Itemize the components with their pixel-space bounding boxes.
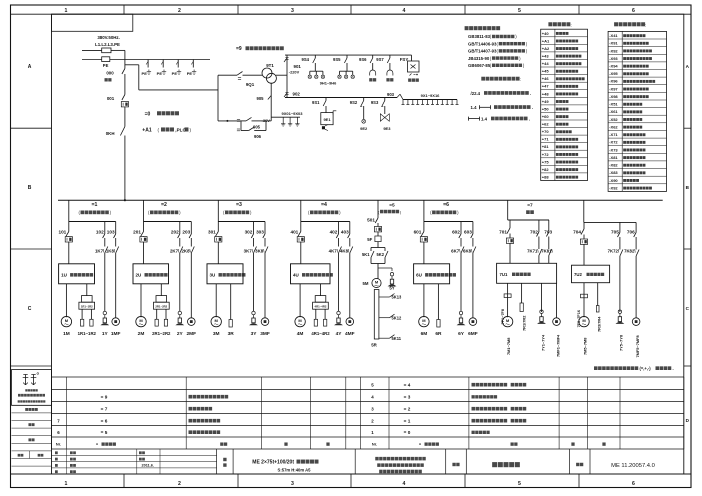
svg-text:+70: +70 <box>542 129 550 134</box>
drive unit 2U <box>133 264 169 284</box>
PE ground drops <box>142 60 152 76</box>
svg-text:6K8\: 6K8\ <box>463 249 473 254</box>
svg-text:A: A <box>28 64 32 70</box>
motor 4M <box>295 284 305 337</box>
svg-text:1.4: 1.4 <box>471 105 478 110</box>
svg-text:2MF: 2MF <box>186 331 196 337</box>
svg-text:3R: 3R <box>228 331 235 337</box>
svg-text:6Y: 6Y <box>458 331 465 337</box>
fuses 7F1-7F8 <box>501 283 511 324</box>
contactor contacts 1K7 1K8 <box>95 247 119 318</box>
svg-text:9E1: 9E1 <box>323 117 331 122</box>
svg-text:Nr.: Nr. <box>372 442 377 447</box>
svg-text:-X73: -X73 <box>609 147 618 152</box>
branch =1 header <box>79 202 112 215</box>
incoming terminal block PE <box>102 57 110 68</box>
svg-text:.: . <box>529 116 530 121</box>
wire 901 from transformer <box>276 55 287 97</box>
drive unit 1U <box>59 264 95 284</box>
branch =6 header <box>430 202 459 215</box>
svg-text:201: 201 <box>133 230 141 235</box>
braking resistors 4R1 4R2 <box>311 284 330 336</box>
svg-text:203: 203 <box>182 230 190 235</box>
schedule table grid <box>52 377 684 449</box>
svg-text:+75: +75 <box>542 159 550 164</box>
svg-text:5: 5 <box>518 481 521 487</box>
svg-text:0KH: 0KH <box>106 131 115 136</box>
wire 101 breaker 1Q1 <box>58 222 72 264</box>
brakes 7Y5-7Y8 <box>616 310 625 351</box>
svg-text:705: 705 <box>611 230 619 235</box>
svg-text:.: . <box>673 366 674 371</box>
svg-text::: : <box>645 22 646 27</box>
svg-text:902: 902 <box>293 91 301 96</box>
svg-text:501: 501 <box>367 218 375 223</box>
svg-text::: : <box>520 77 521 82</box>
svg-text:3U: 3U <box>210 273 216 278</box>
svg-text:603: 603 <box>464 230 472 235</box>
motor 1M <box>61 284 71 337</box>
breaker 9Q6 branch 906 <box>237 121 266 139</box>
brake motor 5M <box>363 278 382 287</box>
svg-text:5M: 5M <box>363 281 369 286</box>
switch 9S2 lamp 9E2 <box>350 98 368 132</box>
svg-text:702: 702 <box>530 230 538 235</box>
svg-text:4MF: 4MF <box>345 331 355 337</box>
svg-text:GB3811-83: GB3811-83 <box>468 34 491 39</box>
svg-text:6MF: 6MF <box>468 331 478 337</box>
svg-text:=1: =1 <box>92 202 98 208</box>
svg-text:+48: +48 <box>542 91 550 96</box>
svg-text:601: 601 <box>414 230 422 235</box>
node =0 label <box>145 111 179 117</box>
svg-text:= 6: = 6 <box>101 418 108 423</box>
svg-text:=7: =7 <box>527 202 533 208</box>
svg-text:1K7\: 1K7\ <box>95 249 105 254</box>
contactor contacts 6K7 6K8 <box>451 247 476 318</box>
bottom column band <box>11 474 692 488</box>
contacts 7K72 7K82 <box>608 249 639 318</box>
incoming terminal block X0 phase <box>102 48 111 53</box>
svg-text:401: 401 <box>290 230 298 235</box>
brake 3Y <box>249 311 258 337</box>
svg-text:GB/T14406-93: GB/T14406-93 <box>468 41 497 46</box>
switch 9S1 bell <box>312 98 336 131</box>
encoders 7MF5-7MF8 <box>632 318 640 358</box>
svg-text:=2: =2 <box>161 202 167 208</box>
wire 903 to terminal strip <box>387 92 403 100</box>
drive unit 4U <box>291 264 333 284</box>
svg-text:+72: +72 <box>542 152 550 157</box>
svg-text:6: 6 <box>632 8 635 14</box>
switch 9S5 lamp group 2 <box>333 55 354 78</box>
svg-text:905: 905 <box>257 96 265 101</box>
svg-text:-X94: -X94 <box>609 64 618 69</box>
svg-text:1R1~1R2: 1R1~1R2 <box>78 331 97 336</box>
svg-text:000: 000 <box>106 71 114 76</box>
svg-text:2: 2 <box>178 8 181 14</box>
main contactor 0KH <box>106 127 125 201</box>
svg-text:5K2: 5K2 <box>376 252 384 257</box>
transformer 9T1 <box>262 63 276 84</box>
svg-text:-X61: -X61 <box>609 109 618 114</box>
svg-text:1K8\: 1K8\ <box>106 249 116 254</box>
svg-text:3MF: 3MF <box>260 331 270 337</box>
svg-text:FSY: FSY <box>400 57 409 62</box>
svg-text:4U: 4U <box>293 273 299 278</box>
svg-text:906: 906 <box>254 134 262 139</box>
svg-text:1Y: 1Y <box>102 331 109 337</box>
svg-text:JB4315-90: JB4315-90 <box>468 56 490 61</box>
svg-text:= 1: = 1 <box>404 418 411 423</box>
svg-text:9S5: 9S5 <box>333 57 341 62</box>
svg-text::: : <box>571 22 572 27</box>
encoder 2MF <box>186 318 196 337</box>
revision box top left <box>52 14 133 31</box>
wires 302 303 <box>245 222 265 247</box>
svg-text:-X92: -X92 <box>609 185 618 190</box>
motor 6M <box>419 284 429 337</box>
svg-text:3M: 3M <box>213 331 220 337</box>
aux feeder junction bar <box>217 75 219 121</box>
wires 705 706 <box>611 222 636 249</box>
svg-text:4K7\: 4K7\ <box>329 249 339 254</box>
svg-text:2R1~2R2: 2R1~2R2 <box>152 331 171 336</box>
svg-text:=0: =0 <box>145 111 151 117</box>
contacts 7K71 7K81 <box>527 249 553 264</box>
svg-text:-X95: -X95 <box>609 71 618 76</box>
svg-text:7MF5~7MF8: 7MF5~7MF8 <box>635 335 640 358</box>
svg-text:-X90: -X90 <box>609 178 618 183</box>
svg-text:7R3/7R4: 7R3/7R4 <box>597 316 602 332</box>
signature rows <box>12 405 52 466</box>
svg-text:4: 4 <box>403 481 406 487</box>
logo box <box>12 370 52 406</box>
header =9 aux supply <box>236 46 284 52</box>
svg-text:2K7\: 2K7\ <box>170 249 180 254</box>
sub-bus 7 feed 2 <box>584 200 636 222</box>
svg-text:303: 303 <box>256 230 264 235</box>
motor 3M <box>211 284 221 337</box>
svg-text:=5: =5 <box>389 202 395 208</box>
svg-text:1MF: 1MF <box>111 331 121 337</box>
contactor contacts 2K7 2K8 <box>170 247 194 318</box>
resistors 7R3 7R4 <box>596 283 601 332</box>
svg-text:-X52: -X52 <box>609 117 618 122</box>
svg-text:4R1~4R2: 4R1~4R2 <box>311 331 330 336</box>
svg-text:-X83: -X83 <box>609 170 618 175</box>
terminal strip 9X01-9X03 with grounds <box>271 111 303 126</box>
svg-text:-X81: -X81 <box>609 155 618 160</box>
svg-text:-X82: -X82 <box>609 163 618 168</box>
svg-text:= 3: = 3 <box>404 394 411 399</box>
motors 7M1-7M4 <box>502 316 512 355</box>
svg-text:103: 103 <box>107 230 115 235</box>
svg-text:4M: 4M <box>297 331 304 337</box>
svg-text:602: 602 <box>452 230 460 235</box>
drawing number label <box>576 463 583 466</box>
svg-text:6K7\: 6K7\ <box>451 249 461 254</box>
title row grid <box>217 449 590 474</box>
svg-text:7R1/7R2: 7R1/7R2 <box>521 315 526 331</box>
encoder 4MF <box>345 318 355 337</box>
branch =3 header <box>223 202 252 215</box>
svg-text:PE: PE <box>103 63 109 68</box>
branch =2 header <box>148 202 181 215</box>
svg-text:+44: +44 <box>542 61 550 66</box>
svg-text:2R1~2R2: 2R1~2R2 <box>155 305 167 309</box>
svg-text:5Y: 5Y <box>389 286 394 291</box>
svg-text:7K72\: 7K72\ <box>608 249 620 254</box>
breaker 0Q1 <box>107 95 129 127</box>
wire 701 breaker 7Q1 <box>499 220 513 263</box>
disconnect switch 0Q0 <box>105 69 125 95</box>
svg-text:4R1~4R2: 4R1~4R2 <box>315 305 327 309</box>
svg-text:7U2: 7U2 <box>574 272 582 277</box>
svg-text:C: C <box>28 306 32 312</box>
svg-text:905: 905 <box>253 124 261 129</box>
svg-text:2K8\: 2K8\ <box>181 249 191 254</box>
brake 2Y <box>175 311 184 337</box>
wire 501 breaker 5Q1 <box>367 200 381 236</box>
svg-text:+A2: +A2 <box>542 46 550 51</box>
schedule header row <box>56 442 606 447</box>
svg-text:-X91: -X91 <box>609 41 618 46</box>
svg-text:= 9: = 9 <box>101 394 108 399</box>
svg-text:5K12: 5K12 <box>392 315 403 320</box>
svg-text:9S4: 9S4 <box>302 57 310 62</box>
svg-text:6U: 6U <box>416 273 422 278</box>
svg-text:380V.50Hz.: 380V.50Hz. <box>97 35 120 40</box>
svg-text:=6: =6 <box>443 202 449 208</box>
lamps label 9H1-9H6 <box>320 81 337 86</box>
svg-text:2Y: 2Y <box>177 331 184 337</box>
location code table <box>541 22 588 180</box>
cable marking legend <box>469 77 534 122</box>
svg-text:+43: +43 <box>542 54 550 59</box>
wires 602 603 <box>452 222 473 247</box>
svg-text:2U: 2U <box>136 273 142 278</box>
svg-text:9T1: 9T1 <box>266 63 274 68</box>
svg-text:+82: +82 <box>542 167 550 172</box>
switch 9S7 socket <box>376 55 393 81</box>
svg-text:5F: 5F <box>367 237 372 242</box>
switch 9S6 socket <box>359 55 376 81</box>
svg-text:6R: 6R <box>435 331 442 337</box>
wire to aux circuit <box>125 65 218 90</box>
svg-text:9S7: 9S7 <box>376 57 384 62</box>
svg-text:7M5~7M8: 7M5~7M8 <box>582 337 587 355</box>
brake 4Y <box>334 311 343 337</box>
braking resistors 1R1 1R2 <box>78 284 97 336</box>
svg-text:GB/T14407-93: GB/T14407-93 <box>468 49 497 54</box>
fuse marks near 902 <box>284 91 300 97</box>
brake 6Y <box>457 311 466 337</box>
svg-text:2011.6.: 2011.6. <box>142 464 154 468</box>
svg-text:+40: +40 <box>542 31 550 36</box>
left row band letters <box>11 64 52 366</box>
wire 201 breaker 2Q1 <box>133 222 147 264</box>
drawing number <box>611 463 655 469</box>
svg-text:-X96: -X96 <box>609 79 618 84</box>
company names <box>375 457 425 473</box>
drive unit 7U1 <box>497 263 557 283</box>
svg-text:7MF1~7MF4: 7MF1~7MF4 <box>555 334 560 357</box>
svg-text:302: 302 <box>245 230 253 235</box>
svg-text:+81: +81 <box>542 144 550 149</box>
svg-text:9S3: 9S3 <box>371 100 379 105</box>
svg-text:5K13: 5K13 <box>392 295 403 300</box>
branch =4 feeder and sub-bus <box>301 200 350 221</box>
encoder 1MF <box>111 318 121 337</box>
svg-text:.: . <box>532 105 533 110</box>
svg-text:4Y: 4Y <box>336 331 343 337</box>
svg-text:PE: PE <box>157 71 163 76</box>
wires 402 403 <box>330 222 350 247</box>
svg-text:1: 1 <box>65 8 68 14</box>
braking resistors 2R1 2R2 <box>152 284 171 336</box>
svg-text:6: 6 <box>632 481 635 487</box>
encoder 6MF <box>468 318 478 337</box>
svg-text:301: 301 <box>208 230 216 235</box>
resistors 7R1 7R2 <box>520 283 526 331</box>
svg-text:=9: =9 <box>236 46 242 52</box>
svg-text:L1.L2.L3.PE: L1.L2.L3.PE <box>95 42 120 47</box>
svg-text:-X98: -X98 <box>609 94 618 99</box>
svg-text:+88: +88 <box>542 175 550 180</box>
drawing title <box>492 462 520 467</box>
svg-text:+A1: +A1 <box>542 38 550 43</box>
svg-text:9S2: 9S2 <box>350 100 358 105</box>
svg-text:1: 1 <box>65 481 68 487</box>
wire 905 transformer secondary <box>257 83 272 123</box>
svg-text:9S6: 9S6 <box>359 57 367 62</box>
svg-text:1.4: 1.4 <box>481 116 488 121</box>
wire 601 breaker 6Q1 <box>414 222 428 264</box>
svg-text:PE: PE <box>142 71 148 76</box>
switch 9S3 horn 9E3 <box>371 98 391 132</box>
svg-text:903: 903 <box>387 92 395 97</box>
svg-text:Nr.: Nr. <box>56 442 61 447</box>
wires 202 203 <box>171 222 191 247</box>
svg-text:9X01~9X03: 9X01~9X03 <box>281 111 303 116</box>
svg-text:= 5: = 5 <box>101 430 108 435</box>
svg-text:102: 102 <box>96 230 104 235</box>
svg-text:=4: =4 <box>321 202 327 208</box>
svg-text:403: 403 <box>341 230 349 235</box>
svg-text:-220V: -220V <box>289 69 300 74</box>
incoming supply label 380V 50Hz <box>95 35 120 47</box>
svg-text:402: 402 <box>330 230 338 235</box>
svg-text:001: 001 <box>107 96 115 101</box>
svg-text:9E3: 9E3 <box>383 126 391 131</box>
top column band <box>11 5 692 14</box>
breaker 9Q1 <box>218 72 262 87</box>
drive unit 7U2 <box>572 265 610 283</box>
svg-text:-X51: -X51 <box>609 102 618 107</box>
svg-text:7K82\: 7K82\ <box>624 249 636 254</box>
contactor contacts 4K7 4K8 <box>329 247 353 318</box>
svg-text:+45: +45 <box>542 69 550 74</box>
fuse 5F <box>367 236 381 248</box>
svg-text:+49: +49 <box>542 99 550 104</box>
svg-text:9S1: 9S1 <box>312 100 320 105</box>
svg-text:2M: 2M <box>138 331 145 337</box>
svg-text:-X41: -X41 <box>609 33 618 38</box>
braking resistor 6R <box>435 284 442 337</box>
drive unit 6U <box>414 264 456 284</box>
svg-text:101: 101 <box>58 230 66 235</box>
svg-text:4: 4 <box>403 8 406 14</box>
svg-text:701: 701 <box>499 230 507 235</box>
svg-text:(=,+,-): (=,+,-) <box>640 366 652 371</box>
svg-text:ME 2×75t+100/20t: ME 2×75t+100/20t <box>252 459 294 465</box>
bus 901 lighting <box>285 54 412 56</box>
phase bus wire <box>82 49 125 51</box>
svg-text:+46: +46 <box>542 76 550 81</box>
svg-text:S:57m H:40m A5: S:57m H:40m A5 <box>278 468 312 473</box>
svg-text:5R: 5R <box>371 343 377 348</box>
fuses 7F9-7F16 <box>577 283 587 328</box>
wires 702 703 <box>530 220 553 249</box>
branch =1 feeder and sub-bus <box>69 200 116 221</box>
drive unit 3U <box>207 264 245 284</box>
svg-text:2: 2 <box>178 481 181 487</box>
wire 401 breaker 4Q1 <box>290 222 304 264</box>
wire 704 breaker 7Q4 <box>573 222 587 265</box>
branch =7 header <box>526 202 534 214</box>
bus 902 aux <box>285 97 397 99</box>
resistor 5R with taps <box>371 290 402 348</box>
svg-text:7Y1~7Y4: 7Y1~7Y4 <box>540 334 545 351</box>
svg-text:706: 706 <box>627 230 635 235</box>
contactor contacts 3K7 3K8 <box>244 247 268 318</box>
svg-text:PE: PE <box>187 71 193 76</box>
encoders 7MF1-7MF4 <box>553 283 561 357</box>
project label <box>223 458 226 467</box>
schedule rows right <box>371 382 526 435</box>
svg-text:+A1: +A1 <box>142 128 152 134</box>
svg-text:PE: PE <box>172 71 178 76</box>
brakes 7Y1-7Y4 <box>537 283 546 351</box>
node +A1 label <box>142 127 191 133</box>
svg-text:9Q1: 9Q1 <box>246 82 255 87</box>
wires 102 103 <box>96 222 116 247</box>
svg-text:-X93: -X93 <box>609 56 618 61</box>
revision sub-table <box>52 449 217 474</box>
main distribution bus <box>58 199 663 201</box>
breaker 9Q5 branch 905 <box>218 117 271 129</box>
svg-text:+50: +50 <box>542 106 550 111</box>
wire 000 drop <box>124 50 126 68</box>
motor 2M <box>136 284 146 337</box>
svg-text:5K11: 5K11 <box>392 336 402 341</box>
PE bus wire <box>82 59 210 61</box>
svg-text:ME 11.20057.4.0: ME 11.20057.4.0 <box>611 463 655 469</box>
branch =4 header <box>308 202 341 215</box>
svg-text:3K7\: 3K7\ <box>244 249 254 254</box>
svg-text:5K1: 5K1 <box>362 252 370 257</box>
brake 1Y <box>100 311 109 337</box>
svg-text:1R1~1R2: 1R1~1R2 <box>81 305 93 309</box>
svg-text:901: 901 <box>294 64 302 69</box>
svg-text:9H1~9H6: 9H1~9H6 <box>320 81 337 86</box>
brake 5Y <box>378 268 396 291</box>
svg-text:= 2: = 2 <box>404 406 411 411</box>
branch =2 feeder and sub-bus <box>144 200 192 221</box>
right row band letters <box>684 64 691 423</box>
svg-text:1M: 1M <box>63 331 70 337</box>
